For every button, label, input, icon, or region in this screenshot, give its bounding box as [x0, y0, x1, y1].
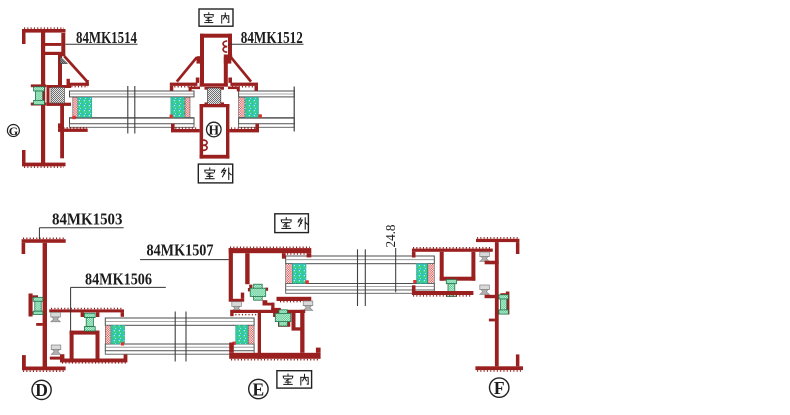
- thermal break block H: [208, 88, 221, 104]
- green gasket 2 on 1506: [81, 312, 100, 331]
- H stem bottom bar and hooks: [189, 83, 240, 91]
- sash rail 84MK1506: [49, 309, 124, 317]
- sash profile at F side top rail: [412, 248, 493, 258]
- green gasket on D: [33, 297, 43, 314]
- right wing of H: [224, 57, 258, 91]
- svg-text:84MK1507: 84MK1507: [147, 241, 214, 260]
- E upper-sash lower rail: [277, 297, 312, 302]
- svg-text:G: G: [9, 124, 18, 138]
- E lower box: [229, 310, 320, 359]
- svg-text:F: F: [494, 378, 505, 398]
- thermal break clamps H: [205, 87, 225, 105]
- spacer left of run A: [105, 325, 124, 345]
- glazing wing of sash 84MK1514: [64, 56, 89, 86]
- serration ticks D: [23, 238, 64, 371]
- sash bottom rail at F: [412, 285, 474, 296]
- green gasket on F stem: [499, 295, 508, 314]
- fastener clip 2 on E: [303, 301, 313, 310]
- fastener clip 1 on F: [480, 252, 490, 261]
- green gasket on F sash: [446, 280, 456, 297]
- serration ticks F: [477, 238, 521, 371]
- H lower glazing flanges: [171, 124, 259, 133]
- frame profile D (84MK1503): [22, 239, 66, 370]
- svg-text:H: H: [209, 123, 220, 138]
- svg-text:84MK1506: 84MK1506: [85, 269, 152, 288]
- room label 室内 bottom: [277, 371, 312, 388]
- label 84MK1503: [39, 210, 123, 240]
- screw port squiggle lower: [203, 140, 207, 150]
- spacer right of run A: [232, 325, 254, 345]
- serration ticks profile G: [24, 28, 64, 167]
- fastener clip 1 on E: [232, 302, 242, 311]
- spacer right of run B: [413, 264, 434, 284]
- break lines run A: [175, 312, 186, 362]
- spacer left of run B: [286, 264, 309, 284]
- lower glazing flange of G sash: [58, 123, 88, 132]
- dark gasket wedge at wing root: [60, 57, 68, 64]
- label 84MK1506: [71, 269, 166, 330]
- sash box 84MK1506: [60, 331, 127, 363]
- svg-text:24.8: 24.8: [383, 224, 398, 247]
- svg-text:84MK1503: 84MK1503: [52, 210, 123, 229]
- svg-text:E: E: [253, 379, 265, 399]
- fastener clip 2 on D: [51, 345, 61, 354]
- glass unit right of H (run 2): [239, 91, 295, 127]
- room label 室外 top right: [275, 214, 309, 233]
- interlock profile E (84MK1507) upper part: [229, 248, 312, 302]
- spacer left of glass run 1: [72, 97, 92, 119]
- room label 室内 top: [199, 9, 233, 26]
- Z step of interlock E: [263, 300, 281, 311]
- green gasket on G: [34, 87, 45, 105]
- bracket under clip 2: [50, 354, 65, 359]
- break lines in glass run 1: [128, 86, 135, 134]
- E lower-sash top rail: [230, 310, 305, 316]
- spacer right of glass run 1: [170, 97, 190, 118]
- H lower tube: [200, 104, 230, 159]
- left wing of H: [170, 57, 204, 91]
- section mark D: [32, 380, 51, 400]
- sash box at F: [440, 252, 476, 281]
- section mark G: [7, 124, 19, 138]
- gasket clamp rails on G: [31, 84, 71, 106]
- cut end line of glass run 2: [293, 87, 295, 132]
- section mark H: [207, 122, 222, 137]
- glass unit run A between D and E: [105, 318, 254, 354]
- dimension 24.8: [383, 224, 398, 292]
- glass unit between G and H (insulating glass run 1): [70, 91, 195, 127]
- break lines run B: [358, 249, 366, 306]
- fastener clip 1 on D: [51, 312, 61, 321]
- section mark F: [490, 378, 509, 398]
- room label 室外 below H: [198, 164, 232, 183]
- mullion profile H (84MK1512) upper tube: [197, 34, 233, 87]
- spacer of glass run 2: [239, 97, 262, 117]
- label 84MK1514: [66, 28, 138, 47]
- frame profile F: [475, 239, 523, 370]
- frame profile G outer: [22, 29, 66, 166]
- gray clamp block on G: [51, 88, 65, 104]
- section mark E: [249, 379, 268, 399]
- cross gasket 1 on E: [248, 284, 268, 300]
- svg-text:D: D: [35, 380, 48, 400]
- fastener clip 2 on F: [480, 285, 490, 294]
- glass unit run B between E and F: [286, 256, 435, 293]
- label 84MK1512: [229, 28, 304, 47]
- label 84MK1507: [140, 241, 229, 260]
- cross gasket 2 on E: [273, 310, 291, 327]
- screw port squiggle upper: [223, 41, 227, 52]
